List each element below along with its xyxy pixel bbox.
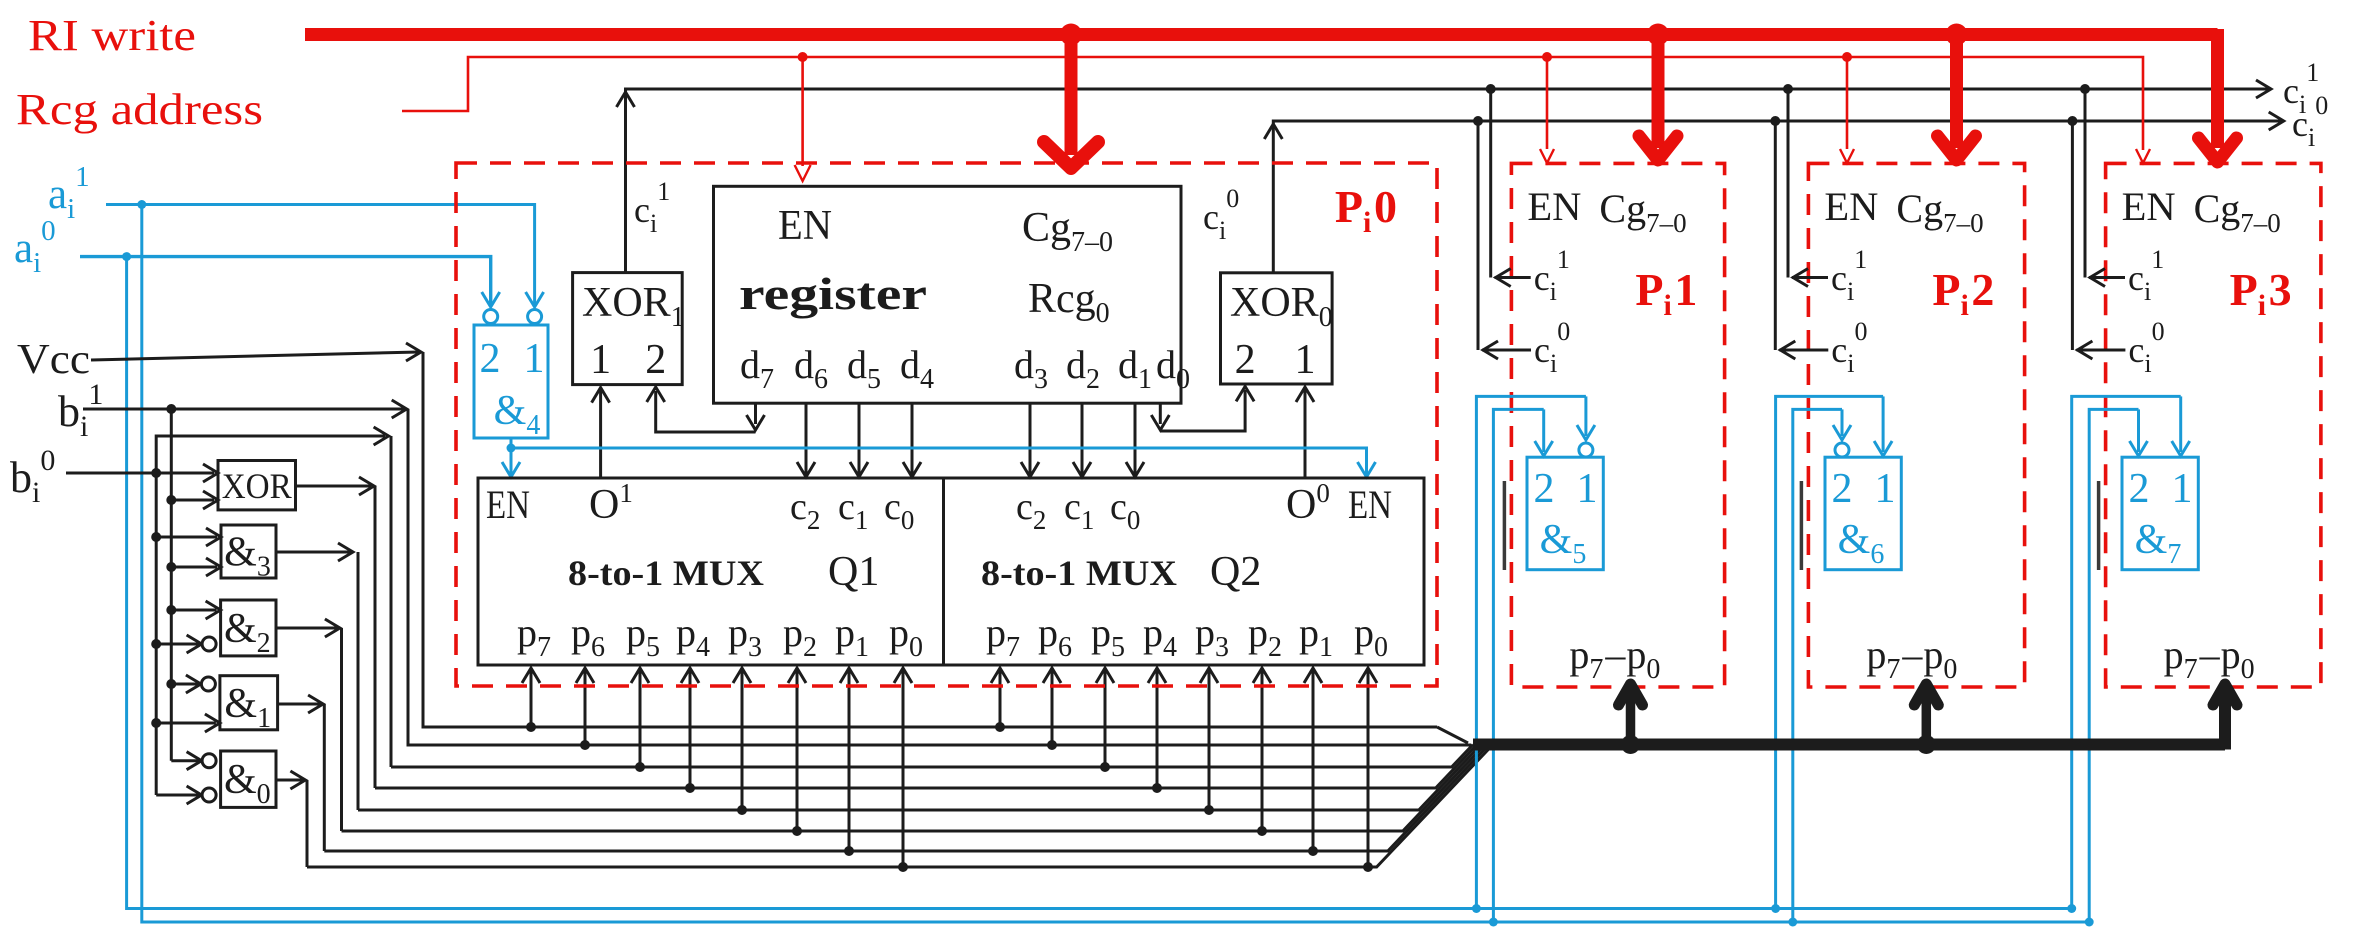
wire &0 p0 line [307,745,1493,868]
svg-text:1: 1 [1295,337,1316,383]
junction Pi1 ci0 [1473,116,1483,126]
junction Rcg/Pi2-EN [1842,52,1852,62]
label Vcc [17,337,90,383]
wire Pi1 ci0 [1477,121,1480,350]
svg-text:EN: EN [1527,184,1581,229]
label Pi3 ci1 [2128,245,2164,306]
wire Pi3 ci0 stub [2076,341,2125,359]
wire bus to Pi2 [1914,684,1938,745]
label Pi2 [1932,264,1994,322]
label Pi3 EN [2122,184,2176,229]
label bi0 [10,444,55,509]
wire MUX1 p1 input [840,668,858,851]
svg-text:–: – [1901,632,1923,677]
label MUX2 name [981,553,1177,593]
wire MUX2 p1 input [1304,668,1322,851]
label Pi0 [1335,181,1397,239]
junction ai0 &5 [1472,904,1481,913]
labels register d7-d0 [740,342,1190,395]
wire Rcg address [402,57,2150,163]
wire Pi2 ci0 [1774,121,1777,350]
wire &0 input2 [156,786,216,804]
block Pi1 dashed box [1511,163,1724,687]
junction bus Pi1 [1621,735,1640,754]
junction Pi2 ci0 [1770,116,1780,126]
junction MUX2 p3 [1204,805,1214,815]
svg-text:3: 3 [2269,264,2292,315]
junction ai1 &7 [2085,918,2094,927]
junction MUX1 p4 [685,783,695,793]
wire ci0 bus [1264,112,2283,273]
wire ai0 to &6 input1 [1776,396,1893,908]
svg-text:XOR0: XOR0 [1230,280,1333,333]
svg-text:Q2: Q2 [1210,549,1261,595]
label Pi3 [2230,264,2292,322]
wire register d to MUX select x806 [797,403,815,477]
label register [739,268,927,319]
label MUX1 EN [486,482,530,527]
svg-text:Rcg address: Rcg address [16,85,263,134]
junction &3 in2 [166,562,176,572]
label Pi1 [1635,264,1697,322]
wire register d to MUX select x1135 [1126,403,1144,477]
wire Rcg to register EN [795,57,811,181]
block Pi3 dashed box [2106,163,2321,687]
junction &2 in1 [166,605,176,615]
wire Pi1 ci0 stub [1482,341,1531,359]
wire &3 input1 [156,528,221,546]
junction MUX2 p2 [1257,826,1267,836]
junction MUX1 p6 [580,740,590,750]
wire Vcc [91,343,1437,727]
wire &1 output [278,695,325,851]
junction XOR input2 [166,495,176,505]
junction bus Pi2 [1917,735,1936,754]
junction MUX1 p1 [844,846,854,856]
svg-text:1: 1 [524,336,545,382]
wire MUX2 p0 input [1359,668,1377,867]
label Pi3 ci0 [2128,317,2164,378]
label ci0 output [2292,91,2328,152]
label register Rcg0 [1028,276,1110,329]
wire &2 output [276,619,342,831]
svg-text:Vcc: Vcc [17,337,90,383]
block Pi2 dashed box [1808,163,2024,687]
wire register d to MUX select x859 [850,403,868,477]
wire XOR output [296,477,376,788]
register Rcg0 box [714,186,1182,403]
wire p7 line right end [1437,727,1468,743]
junction MUX2 p4 [1152,783,1162,793]
wire stub left of &5 [1503,481,1507,570]
svg-text:1: 1 [1674,264,1697,315]
gate &6 box [1825,457,1901,570]
label MUX2 Q2 [1210,549,1261,595]
junction MUX1 p5 [635,762,645,772]
wire ai0 to &5 input1 [1476,396,1595,908]
wire &1 p1 line [324,745,1489,852]
svg-text:1: 1 [2172,466,2193,512]
junction MUX2 p0 [1363,862,1373,872]
wire bi0 p5 line [391,745,1473,768]
gate &7 box [2122,457,2198,570]
wire Pi2 ci1 [1787,89,1790,278]
gate &1 [220,676,278,734]
junction ai1 trunk [137,200,146,209]
label MUX2 selects [1016,486,1140,535]
label Pi1 ci1 [1534,245,1570,306]
wire stub left of &6 [1800,481,1804,570]
wire &0 output [276,771,307,867]
wire ai1 to &4 bubble [526,292,544,324]
label Pi1 EN [1527,184,1581,229]
label MUX2 EN [1348,482,1392,527]
wire MUX1 p7 input [522,668,540,727]
gate XOR0 box [1221,273,1333,384]
wire MUX1 p5 input [631,668,649,767]
junction MUX2 p1 [1308,846,1318,856]
junction Rcg/Pi1-EN [1542,52,1552,62]
wire Pi1 ci1 stub [1495,269,1531,287]
labels MUX1 p7-p0 [517,610,923,663]
wire ai1 to &6 input2 [1793,409,1851,922]
label Pi1 ci0 [1534,317,1570,378]
junction RI-write/Pi2 [1946,24,1968,46]
gate &2 [221,600,276,659]
label ai1 [48,161,90,225]
wire bi1 [83,400,1471,745]
wire stub left of &7 [2097,481,2101,570]
wire EN to MUX2 [511,448,1376,477]
block Pi0 dashed box [456,163,1437,686]
wire bi0 trunk up to fan [156,427,391,767]
wire &3 input2 [171,558,221,576]
mux Q2 box [944,478,1425,665]
label Pi3 p7-p0 [2164,632,2255,685]
svg-text:2: 2 [1971,264,1994,315]
wire &4 output EN [502,438,520,477]
wire ai1 to &7 input2 [2089,409,2147,922]
junction &4 EN [507,444,516,453]
svg-text:EN: EN [2122,184,2176,229]
label bi1 [58,378,103,443]
svg-text:2: 2 [480,336,501,382]
wire ai0 vertical [127,257,2072,909]
label MUX1 name [568,553,764,593]
wire register d to MUX select x1030 [1021,403,1039,477]
svg-text:2: 2 [645,337,666,383]
junction MUX1 p3 [737,805,747,815]
wire bi0 [66,464,218,482]
wire Rcg to Pi2 EN [1840,57,1854,163]
label MUX1 Q1 [828,549,879,595]
junction ai0 trunk [122,252,131,261]
junction MUX1 p2 [792,826,802,836]
wire Pi3 ci1 stub [2089,269,2125,287]
junction ai1 &5 [1489,918,1498,927]
svg-text:EN: EN [1348,482,1392,527]
junction &1 in2 [151,718,161,728]
wire XOR input2 [171,491,218,509]
wire MUX2 p4 input [1148,668,1166,788]
wire Pi2 ci0 stub [1779,341,1828,359]
label Pi1 Cg7-0 [1599,186,1686,238]
junction ai0 &6 [1771,904,1780,913]
label MUX2 O0 [1286,478,1330,528]
wire ai1 [106,205,535,305]
label RI write [28,11,196,60]
svg-text:register: register [739,268,927,319]
junction ai0 &7 [2067,904,2076,913]
gate &5 box [1527,457,1603,570]
svg-text:1: 1 [590,337,611,383]
gate XOR [218,461,296,510]
gate &3 [221,525,276,583]
wire bus to Pi1 [1619,684,1643,745]
junction MUX1 p7 [526,722,536,732]
svg-text:Q1: Q1 [828,549,879,595]
junction bi0 trunk [151,468,161,478]
label Pi2 ci1 [1831,245,1867,306]
svg-text:–: – [2199,632,2221,677]
label MUX1 O1 [589,478,633,528]
label MUX1 selects [790,486,914,535]
label Rcg address [16,85,263,134]
wire Pi3 ci1 [2084,89,2087,278]
wire &2 input1 [171,601,220,619]
wire MUX1 p4 input [681,668,699,788]
wire &0 input1 [171,752,216,770]
junction Pi1 ci1 [1486,84,1496,94]
junction &1 in1 [166,679,176,689]
svg-text:–: – [1604,632,1626,677]
label Pi1 p7-p0 [1569,632,1660,685]
wire ai0 to &4 bubble [482,292,500,324]
wire MUX2 p3 input [1200,668,1218,810]
junction Pi3 ci0 [2067,116,2077,126]
wire XOR0 pin1 arrow [1296,387,1314,402]
svg-text:2: 2 [1235,337,1256,383]
wire bi1 trunk down [170,409,173,761]
svg-text:2: 2 [1534,466,1555,512]
wire ai1 vertical [142,205,2089,923]
wire &1 input2 [156,714,220,732]
label Pi2 Cg7-0 [1896,186,1983,238]
svg-text:EN: EN [778,203,832,249]
label register Cg7-0 [1022,205,1113,258]
junction RI-write/Pi1 [1647,24,1669,46]
svg-text:2: 2 [1832,466,1853,512]
wire Pi1 ci1 [1489,89,1492,278]
wire RI write to register Cg [1044,35,1098,169]
gate XOR1 box [573,273,685,385]
wire &3 p3 line [358,745,1481,811]
label ai0 [14,215,56,279]
wire d0 to XOR0 [1151,386,1254,431]
wire &1 input1 [171,675,215,693]
bus p7-p0 [1473,700,2225,750]
label ci0 at XOR0 [1203,184,1239,245]
wire MUX2 p2 input [1253,668,1271,831]
wire XOR p4 line [375,745,1477,789]
label ci1 output [2283,58,2319,119]
svg-text:1: 1 [1875,466,1896,512]
junction Rcg/register-EN [798,52,808,62]
junction &3 in1 [151,532,161,542]
wire ai0 to &7 input1 [2072,396,2190,908]
wire XOR1 pin1 arrow [592,388,610,403]
junction Pi2 ci1 [1783,84,1793,94]
wire MUX2 p5 input [1096,668,1114,767]
junction MUX1 p0 [898,862,908,872]
wire MUX1 p0 input [894,668,912,867]
wire O0 to XOR0 [1304,390,1307,478]
wire &3 output [276,543,358,810]
gate &0 [221,751,276,810]
wire MUX2 p6 input [1043,668,1061,745]
junction RI-write/register [1060,24,1082,46]
svg-text:0: 0 [1374,181,1397,232]
junction ai1 &6 [1788,918,1797,927]
label register EN [778,203,832,249]
wire Pi3 ci0 [2071,121,2074,350]
junction &2 in2 [151,639,161,649]
wire ai0 [80,257,491,304]
wire MUX2 p7 input [991,668,1009,727]
wire Pi2 ci1 stub [1792,269,1828,287]
label Pi2 p7-p0 [1866,632,1957,685]
label Pi3 Cg7-0 [2194,186,2281,238]
gate &4 box [474,325,548,441]
svg-text:8-to-1 MUX: 8-to-1 MUX [568,553,764,593]
svg-text:8-to-1 MUX: 8-to-1 MUX [981,553,1177,593]
wire bi0 trunk down [155,473,158,795]
label Pi2 EN [1824,184,1878,229]
junction Pi3 ci1 [2080,84,2090,94]
bus RI-write [305,29,2218,134]
wire RI write to Pi1 [1639,35,1677,161]
wire bus to Pi3 [2213,684,2237,745]
junction MUX2 p6 [1047,740,1057,750]
wire register d to MUX select x912 [903,403,921,477]
svg-text:2: 2 [2129,466,2150,512]
svg-text:XOR1: XOR1 [582,280,685,333]
wire O1 to XOR1 [599,390,602,478]
svg-text:1: 1 [1577,466,1598,512]
junction MUX2 p5 [1100,762,1110,772]
wire Rcg to Pi1 EN [1540,57,1554,163]
wire &2 input2 [156,635,216,653]
wire RI write to Pi3 [2199,134,2237,162]
wire MUX1 p6 input [576,668,594,745]
svg-text:EN: EN [1824,184,1878,229]
svg-text:EN: EN [486,482,530,527]
junction MUX2 p7 [995,722,1005,732]
wire d7 to XOR1 [647,387,765,432]
wire ai1 to &5 input2 [1493,409,1552,922]
label Pi2 ci0 [1831,317,1867,378]
junction bi1 trunk [166,404,176,414]
mux Q1 box [478,478,944,665]
wire RI write to Pi2 [1938,35,1976,161]
wire ci1 bus [617,80,2272,273]
svg-text:XOR: XOR [222,466,292,506]
wire MUX1 p3 input [733,668,751,810]
wire register d to MUX select x1082 [1073,403,1091,477]
wire &2 p2 line [342,745,1486,832]
svg-text:RI write: RI write [28,11,196,60]
labels MUX2 p7-p0 [986,610,1388,663]
label ci1 at XOR1 [634,177,670,238]
wire MUX1 p2 input [788,668,806,831]
